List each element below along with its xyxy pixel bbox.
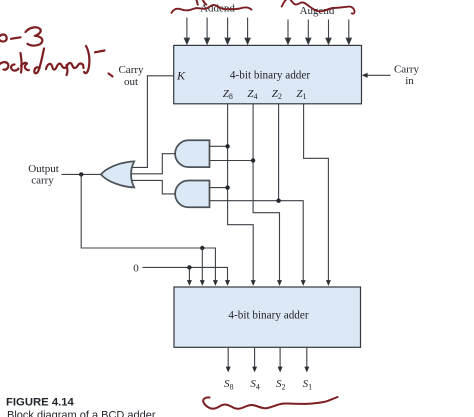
label S1 [303,378,313,391]
svg-text:Block diagram of a BCD adder: Block diagram of a BCD adder [7,410,156,417]
annotation red squiggle under S outputs [203,397,337,409]
svg-text:carry: carry [31,175,54,187]
wire Z8 net from U1 down, jog right into U2 [228,104,256,286]
svg-text:Output: Output [28,163,59,175]
svg-text:S4: S4 [250,378,260,391]
wire S2 output of U2 [278,347,283,372]
label S8 [224,378,234,391]
svg-text:S1: S1 [303,378,313,391]
svg-text:4-bit binary adder: 4-bit binary adder [230,69,310,81]
label Carry in [394,64,420,87]
pin K of U1 [176,69,186,83]
svg-text:S2: S2 [276,378,286,391]
svg-text:S8: S8 [224,378,234,391]
svg-text:FIGURE 4.14: FIGURE 4.14 [6,396,75,408]
OR gate G3 [101,161,134,187]
wire Z2 net from U1 down to AND input line [278,104,280,201]
label Output carry [28,163,59,187]
wire carry-in arrow into U1 [362,73,391,78]
annotation red cut-off strokes above Addend [197,0,207,5]
pin Z2 of U1 [272,88,282,101]
label figure caption (clipped) [7,410,156,417]
junction Z2 to G2 [276,199,280,203]
label Carry out [118,64,144,88]
svg-text:4-bit binary adder: 4-bit binary adder [228,310,308,322]
svg-text:in: in [405,75,414,87]
junction Z8 to G2 [225,185,229,189]
wire carry branch down into U2 [200,248,205,286]
svg-text:Carry: Carry [118,64,144,76]
wire addend input arrows into U1 [184,18,250,45]
label S4 [250,378,260,391]
svg-text:Carry: Carry [394,64,420,76]
wire output-carry net from G3 [62,173,101,175]
annotation red squiggle through Addend [172,5,252,13]
annotation red handwriting line 2 [0,46,113,77]
wire output-carry down and right to U2 addend [81,174,218,286]
wire S1 output of U2 [304,347,309,372]
pin Z4 of U1 [247,88,257,101]
AND gate G2 [175,181,209,208]
junction carry branch to second U2 addend pin [200,246,204,250]
label Augend [300,5,335,17]
4-bit binary adder U1 [174,45,362,103]
wire S4 output of U2 [252,347,257,372]
label constant 0 [133,263,139,275]
label Addend [200,3,235,15]
wire G1 input 2 from Z4 [210,160,254,162]
wire S8 output of U2 [226,347,231,372]
wire Z4 net from U1 down, jog right into U2 [253,104,282,286]
junction output-carry branch [79,172,83,176]
wire G1 input 1 from Z8 [210,145,228,147]
wire augend input arrows into U1 [286,20,352,45]
wire G2 input 1 from Z8 [210,187,228,189]
svg-text:out: out [124,76,138,88]
junction Z4 to G1 [251,158,255,162]
wire Z1 net from U1 down, jog right into U2 [304,104,331,286]
AND gate G1 [175,140,209,167]
annotation red handwriting line 1 [0,27,42,45]
label S2 [276,378,286,391]
wire G2 input 2 from Z2, continuing as Z2 jog into U2 [210,201,306,286]
junction Z8 to G1 [225,144,229,148]
wire G2 output to OR gate G3 [131,180,175,194]
wire K carry-out from U1 to OR gate G3 [132,76,174,168]
wire zero branch down into U2 [187,267,192,286]
annotation red squiggle through Augend [282,0,355,14]
junction zero branch [187,265,191,269]
svg-text:K: K [176,69,186,83]
wire zero net into U2 addend bits [143,267,231,286]
4-bit binary adder U2 [174,287,361,347]
svg-text:0: 0 [133,263,139,275]
wire G1 output to OR gate G3 [131,154,175,174]
label FIGURE 4.14 [6,396,75,408]
pin Z1 of U1 [296,88,306,101]
pin Z8 of U1 [223,88,233,101]
